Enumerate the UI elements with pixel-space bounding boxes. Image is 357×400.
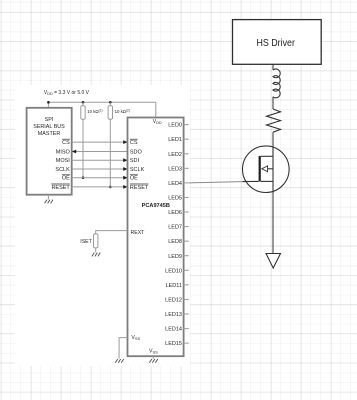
wire RSET to ground bbox=[95, 248, 97, 253]
svg-text:OE: OE bbox=[62, 176, 70, 182]
wire drain re-draw over circle bbox=[272, 146, 274, 157]
pin LED14 bbox=[165, 327, 182, 333]
transistor gate bar bbox=[259, 156, 261, 182]
svg-text:REXT: REXT bbox=[131, 230, 146, 236]
pin LED0 bbox=[168, 123, 182, 129]
wire MISO/SDO bbox=[72, 151, 128, 153]
pin label CS bbox=[130, 140, 138, 146]
pin label SDO bbox=[130, 150, 143, 156]
svg-text:LED1: LED1 bbox=[168, 137, 182, 143]
ground bottom VSS bbox=[149, 359, 157, 363]
wire OE bbox=[72, 177, 128, 179]
svg-text:LED5: LED5 bbox=[168, 196, 182, 202]
svg-text:OE: OE bbox=[130, 176, 138, 182]
arrow to LED string bbox=[266, 254, 281, 269]
node junction dot VDD/R2 bbox=[109, 101, 112, 104]
node junction dot VDD/R1 bbox=[82, 101, 85, 104]
ground under SPI master bbox=[45, 200, 53, 204]
wire SPI ground stub bbox=[47, 195, 49, 200]
pin LED13 bbox=[165, 312, 182, 318]
label 10 kOhm (1) bbox=[87, 109, 102, 115]
svg-text:CS: CS bbox=[62, 140, 70, 146]
resistor R2 10 kOhm pull-up bbox=[108, 102, 112, 187]
SPI pin label MOSI bbox=[56, 158, 71, 164]
svg-text:SCLK: SCLK bbox=[55, 167, 70, 173]
wire VDD to SPI master bbox=[47, 102, 49, 108]
svg-text:LED7: LED7 bbox=[168, 225, 182, 231]
pin LED8 bbox=[168, 239, 182, 245]
svg-text:VSS: VSS bbox=[131, 335, 140, 341]
label 10 kOhm (2) bbox=[115, 109, 130, 115]
pin label VSS left bbox=[131, 335, 140, 341]
svg-text:SDO: SDO bbox=[130, 150, 143, 156]
SPI pin label SCLK bbox=[55, 167, 70, 173]
wire VSS left to ground bbox=[119, 338, 127, 359]
HS Driver box bbox=[233, 20, 322, 65]
wire SCLK bbox=[72, 168, 128, 170]
inductor coil bbox=[273, 69, 280, 98]
svg-text:LED3: LED3 bbox=[168, 166, 182, 172]
resistor RSET bbox=[94, 234, 98, 248]
wire gate from LED4 bbox=[189, 182, 243, 183]
wire source down bbox=[272, 193, 274, 254]
transistor drain lead bbox=[261, 155, 273, 157]
SPI pin label CS bbox=[62, 140, 70, 146]
svg-text:MISO: MISO bbox=[56, 150, 71, 156]
svg-text:SERIAL BUS: SERIAL BUS bbox=[33, 124, 65, 130]
node junction dot R1/OE bbox=[82, 176, 85, 179]
svg-text:VDD = 3.3 V or 5.0 V: VDD = 3.3 V or 5.0 V bbox=[44, 90, 90, 96]
pin LED6 bbox=[168, 210, 182, 216]
svg-text:SDI: SDI bbox=[130, 158, 140, 164]
svg-text:LED10: LED10 bbox=[165, 268, 182, 274]
wire VSS bottom to ground bbox=[152, 356, 154, 359]
svg-text:LED6: LED6 bbox=[168, 210, 182, 216]
svg-text:LED8: LED8 bbox=[168, 239, 182, 245]
pin label VSS bottom bbox=[149, 349, 158, 355]
transistor source lead bbox=[261, 180, 273, 182]
svg-text:RESET: RESET bbox=[130, 185, 149, 191]
svg-text:CS: CS bbox=[130, 140, 138, 146]
wire VDD rail bbox=[48, 101, 155, 103]
pin LED3 bbox=[168, 166, 182, 172]
wire CS bbox=[72, 141, 128, 143]
pin LED2 bbox=[168, 152, 182, 158]
pin LED15 bbox=[165, 341, 182, 347]
pin label RESET bbox=[130, 185, 149, 191]
pin label VDD bbox=[153, 119, 162, 125]
svg-text:10 kΩ(1): 10 kΩ(1) bbox=[87, 109, 102, 115]
svg-text:SPI: SPI bbox=[45, 117, 54, 123]
IC U1 PCA9745B body bbox=[128, 118, 184, 357]
transistor Q1 NMOS circle bbox=[242, 146, 289, 193]
resistor R1 10 kOhm pull-up bbox=[81, 102, 85, 177]
pin LED10 bbox=[165, 268, 182, 274]
ground left VSS bbox=[115, 359, 123, 363]
node junction dot VDD/SPI bbox=[47, 101, 50, 104]
svg-text:MASTER: MASTER bbox=[38, 131, 61, 137]
pin LED5 bbox=[168, 196, 182, 202]
wire MOSI/SDI bbox=[72, 159, 128, 161]
ground under RSET bbox=[92, 253, 100, 257]
wire inductor to resistor bbox=[272, 97, 274, 109]
SPI pin label MISO bbox=[56, 150, 71, 156]
wire RESET bbox=[72, 186, 128, 188]
svg-text:LED11: LED11 bbox=[166, 283, 182, 289]
SPI pin label RESET bbox=[51, 185, 70, 191]
svg-text:LED13: LED13 bbox=[165, 312, 182, 318]
svg-text:HS Driver: HS Driver bbox=[256, 37, 295, 49]
wire resistor to transistor drain bbox=[272, 132, 274, 156]
VDD power rail label bbox=[44, 90, 90, 96]
SPI pin label OE bbox=[62, 176, 70, 182]
svg-text:LED0: LED0 bbox=[168, 123, 182, 129]
pin LED7 bbox=[168, 225, 182, 231]
svg-text:MOSI: MOSI bbox=[56, 158, 71, 164]
svg-text:RESET: RESET bbox=[51, 185, 70, 191]
wire VDD to PCA9745B VDD pin bbox=[155, 102, 157, 118]
pin label SDI bbox=[130, 158, 140, 164]
svg-text:LED9: LED9 bbox=[168, 254, 182, 260]
svg-text:ISET: ISET bbox=[80, 239, 92, 245]
svg-text:LED2: LED2 bbox=[168, 152, 182, 158]
pin LED11 bbox=[166, 283, 182, 289]
resistor series zigzag bbox=[267, 109, 281, 132]
svg-text:LED15: LED15 bbox=[165, 341, 182, 347]
svg-text:LED12: LED12 bbox=[165, 297, 182, 303]
wire REXT bbox=[96, 231, 128, 234]
pin LED1 bbox=[168, 137, 182, 143]
pin LED9 bbox=[168, 254, 182, 260]
svg-text:LED4: LED4 bbox=[168, 181, 182, 187]
pin label REXT bbox=[131, 230, 146, 236]
label PCA9745B bbox=[142, 203, 170, 209]
svg-text:LED14: LED14 bbox=[165, 327, 182, 333]
wire HS Driver to inductor bbox=[272, 64, 274, 70]
pin label OE bbox=[130, 176, 138, 182]
svg-text:SCLK: SCLK bbox=[130, 167, 145, 173]
node junction dot R2/RESET bbox=[109, 186, 112, 189]
svg-text:10 kΩ(2): 10 kΩ(2) bbox=[115, 109, 130, 115]
pin label SCLK bbox=[130, 167, 145, 173]
transistor body lead with arrow bbox=[267, 168, 273, 170]
svg-text:PCA9745B: PCA9745B bbox=[142, 203, 170, 209]
pin LED12 bbox=[165, 297, 182, 303]
pin LED4 bbox=[168, 181, 182, 187]
SPI serial bus master box bbox=[27, 108, 72, 195]
svg-text:VSS: VSS bbox=[149, 349, 158, 355]
